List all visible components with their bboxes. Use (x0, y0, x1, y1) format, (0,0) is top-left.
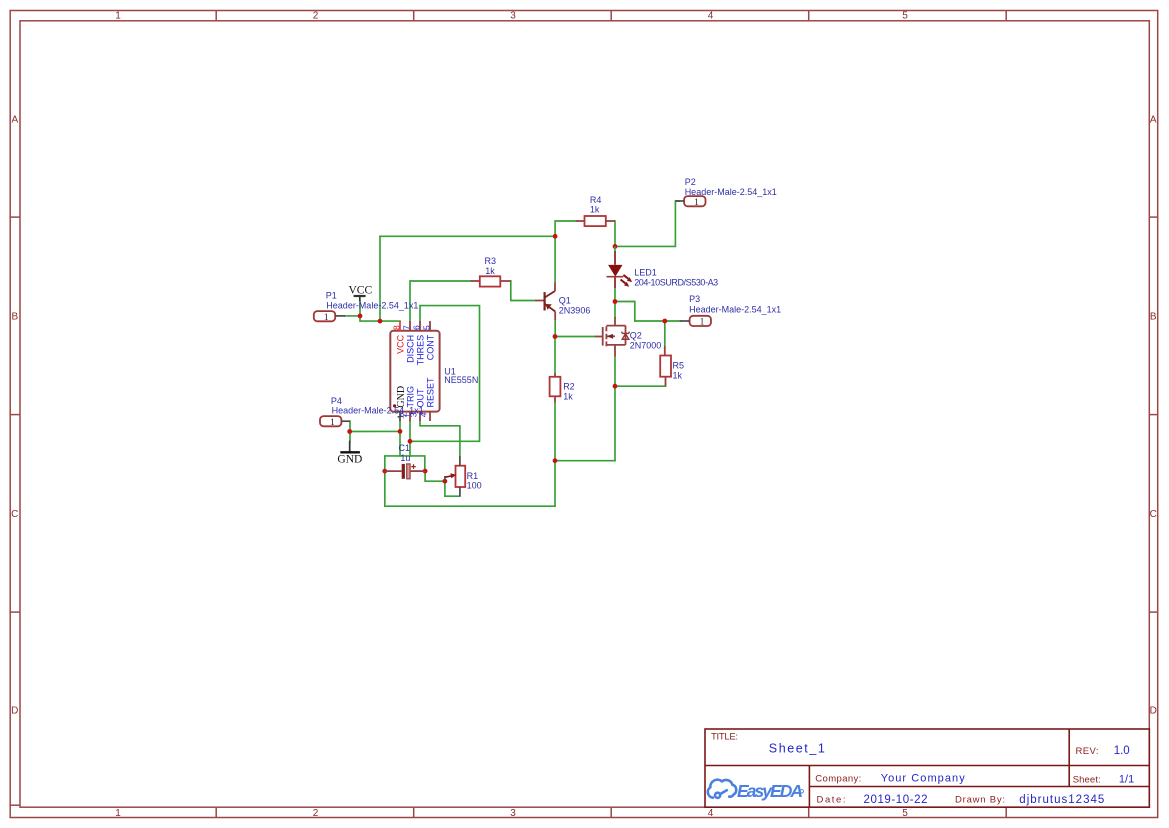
svg-text:C: C (11, 509, 18, 520)
svg-text:P3: P3 (689, 294, 700, 304)
transistor Q1 2N3906 (535, 283, 590, 321)
junction LED1 cathode/Q2 drain (613, 299, 618, 304)
net flag GND at P4 (337, 441, 362, 466)
svg-text:Sheet:: Sheet: (1073, 775, 1101, 786)
wire Q1 junction down to R2 (554, 337, 556, 374)
wire R5 bottom row (615, 385, 666, 387)
svg-text:2N3906: 2N3906 (559, 305, 591, 315)
wire pin1 gnd net down to loop (399, 421, 401, 456)
header P4 (320, 396, 424, 428)
wire Q2 source down to junction (614, 356, 616, 386)
svg-text:Header-Male-2.54_1x1: Header-Male-2.54_1x1 (332, 406, 424, 416)
svg-text:Your Company: Your Company (881, 772, 966, 784)
svg-text:5: 5 (422, 325, 432, 330)
svg-text:2N7000: 2N7000 (630, 340, 662, 350)
svg-text:1: 1 (115, 808, 121, 819)
svg-text:B: B (11, 312, 18, 323)
svg-text:1k: 1k (485, 266, 495, 276)
svg-text:A: A (1150, 115, 1157, 126)
svg-text:R5: R5 (673, 361, 685, 371)
svg-text:djbrutus12345: djbrutus12345 (1019, 794, 1104, 806)
svg-text:B: B (1150, 312, 1157, 323)
svg-text:5: 5 (902, 808, 908, 819)
body diode (622, 332, 630, 340)
svg-text:TITLE:: TITLE: (711, 732, 738, 743)
svg-text:P2: P2 (685, 177, 696, 187)
junction P4/GND (347, 429, 352, 434)
net flag VCC (349, 285, 373, 302)
wire R3 left down to pin7 (410, 281, 471, 321)
svg-text:NE555N: NE555N (444, 375, 478, 385)
net flag GND rotated on pin 1 (393, 386, 407, 408)
wire R4 left corner (555, 221, 576, 236)
wire top rail (380, 235, 555, 237)
wire P4 pin down (349, 421, 351, 431)
op-amp U1 NE555N body (390, 321, 478, 421)
junction R4/LED1 anode/P2 (613, 244, 618, 249)
svg-text:P1: P1 (326, 290, 337, 300)
svg-text:100: 100 (467, 481, 482, 491)
junction C1 right (423, 469, 428, 474)
junction R2 bottom rail (553, 458, 558, 463)
wire vertical rail x380 (379, 236, 381, 321)
svg-text:8: 8 (392, 325, 402, 330)
svg-text:R1: R1 (467, 471, 479, 481)
wire Q1 collector down to junction (554, 320, 556, 336)
junction VCC rail at Q1 emitter (553, 234, 558, 239)
wire P1 to VCC junction (345, 315, 360, 317)
svg-text:VCC: VCC (395, 334, 405, 354)
wire C1 right junction down to wiper junction (425, 471, 445, 481)
junction P3/R5 top (662, 319, 667, 324)
svg-text:1u: 1u (400, 453, 410, 463)
svg-text:Header-Male-2.54_1x1: Header-Male-2.54_1x1 (326, 301, 418, 311)
wire LED junction branch to P3 (615, 302, 680, 322)
svg-text:C1: C1 (399, 443, 411, 453)
wire bottom row to R2 junction (555, 460, 615, 462)
resistor R3 (471, 256, 511, 286)
wire P3 junction down to R5 (664, 321, 666, 346)
svg-text:Drawn By:: Drawn By: (955, 795, 1005, 806)
LED1 (607, 246, 719, 288)
svg-text:Q1: Q1 (559, 296, 571, 306)
svg-text:1: 1 (324, 313, 329, 323)
wire VCC junction down-right to pin8 (360, 316, 400, 321)
resistor R4 (576, 195, 615, 226)
COMPONENTS (314, 177, 781, 496)
svg-text:4: 4 (708, 808, 714, 819)
junction VCC at P1 (358, 314, 363, 319)
svg-text:Header-Male-2.54_1x1: Header-Male-2.54_1x1 (685, 187, 777, 197)
svg-text:204-10SURD/S530-A3: 204-10SURD/S530-A3 (634, 277, 718, 287)
wire P4 junction down to GND flag (349, 432, 351, 441)
wire R2 bottom through junction down to bottom rail (554, 402, 556, 506)
svg-text:2: 2 (313, 11, 319, 22)
pin 1 stub (gnd, dark) (399, 412, 401, 421)
header P3 (680, 294, 781, 328)
svg-text:D: D (11, 706, 18, 717)
svg-text:THRES: THRES (415, 335, 425, 366)
CIRCUIT (345, 201, 680, 506)
svg-text:4: 4 (708, 11, 714, 22)
svg-text:CONT: CONT (425, 334, 435, 360)
svg-text:Date:: Date: (817, 795, 846, 806)
svg-text:Q2: Q2 (630, 331, 642, 341)
wire pin3 OUT down to R1 (420, 421, 460, 456)
junction VCC rail riser (378, 319, 383, 324)
wire LED cathode to Q2 drain junction (614, 288, 616, 302)
junction GND pin1 (398, 429, 403, 434)
svg-text:GND: GND (337, 454, 362, 466)
svg-text:C: C (1150, 509, 1157, 520)
wire VCC stem lower part (359, 301, 361, 316)
resistor R2 (550, 373, 575, 402)
wire rail junction down to Q1 emitter (554, 236, 556, 282)
wire Q2 drain upper (614, 302, 616, 318)
header P2 (675, 177, 776, 208)
wire pin2 TRIG down (409, 421, 411, 456)
svg-text:3: 3 (510, 11, 516, 22)
svg-text:P4: P4 (331, 396, 342, 406)
header P1 (314, 290, 419, 323)
wire source junction down to bottom row (614, 386, 616, 461)
svg-text:3: 3 (510, 808, 516, 819)
transistor Q2 2N7000 (595, 317, 661, 356)
svg-text:Header-Male-2.54_1x1: Header-Male-2.54_1x1 (689, 305, 781, 315)
junction R1 wiper (443, 479, 448, 484)
svg-text:R3: R3 (485, 256, 497, 266)
wire wiper junction loop to R1 bottom (445, 481, 460, 496)
svg-text:2019-10-22: 2019-10-22 (864, 794, 928, 806)
svg-text:1: 1 (700, 318, 705, 328)
svg-text:7: 7 (402, 325, 412, 330)
svg-text:1: 1 (330, 418, 335, 428)
potentiometer R1 (445, 456, 482, 496)
svg-text:RESET: RESET (426, 377, 436, 408)
resistor R5 (660, 346, 684, 386)
wire C1 loop top (385, 456, 425, 471)
svg-text:1/1: 1/1 (1119, 773, 1134, 785)
svg-text:R2: R2 (563, 382, 575, 392)
wire TRIG junction right and up to THRES (410, 306, 480, 442)
svg-text:A: A (11, 115, 18, 126)
wire Q1 junction right to Q2 gate (555, 336, 595, 338)
junction TRIG node (408, 439, 413, 444)
EasyEDA logo (708, 780, 804, 801)
svg-text:1.0: 1.0 (1114, 745, 1130, 757)
junction Q1 collector/Q2 gate/R2 (553, 334, 558, 339)
TITLE BLOCK (705, 729, 1149, 807)
wire LED junction to P2 (615, 201, 679, 246)
svg-text:REV:: REV: (1076, 746, 1099, 757)
wire bottom rail up to C1 left junction (384, 471, 386, 506)
wire bottom rail (385, 505, 555, 507)
junction Q2 source/R5 bottom (613, 384, 618, 389)
svg-text:R4: R4 (590, 195, 602, 205)
svg-text:6: 6 (412, 325, 422, 330)
svg-text:GND: GND (396, 386, 407, 408)
svg-text:DISCH: DISCH (405, 335, 415, 363)
svg-text:D: D (1150, 706, 1157, 717)
svg-text:1k: 1k (563, 391, 573, 401)
svg-text:1: 1 (115, 11, 121, 22)
svg-text:LED1: LED1 (634, 267, 657, 277)
wire R4 right down to LED junction (614, 221, 616, 246)
svg-text:VCC: VCC (349, 285, 373, 297)
svg-text:5: 5 (902, 11, 908, 22)
capacitor C1 (385, 443, 425, 479)
svg-text:1k: 1k (590, 205, 600, 215)
junction C1 left (382, 469, 387, 474)
svg-text:2: 2 (313, 808, 319, 819)
svg-text:1k: 1k (673, 370, 683, 380)
junction dots (347, 234, 667, 484)
wire P4 junction right to gnd junction (350, 430, 400, 432)
wire R3 right to Q1 base (511, 281, 536, 301)
svg-text:EasyEDA: EasyEDA (737, 781, 803, 801)
svg-text:Company:: Company: (815, 774, 861, 785)
svg-text:1: 1 (694, 198, 699, 208)
